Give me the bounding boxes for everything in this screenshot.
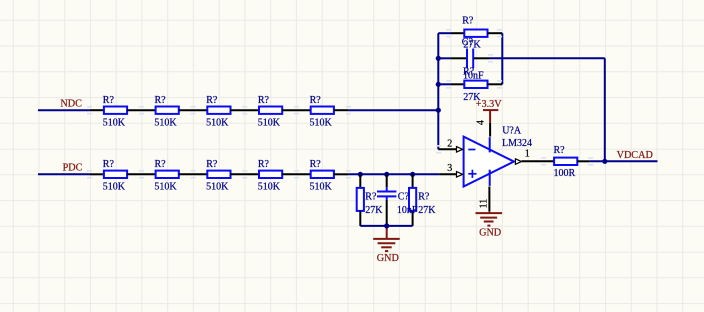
svg-text:100R: 100R <box>554 168 576 179</box>
svg-text:R?: R? <box>155 159 167 170</box>
svg-text:510K: 510K <box>154 118 177 129</box>
svg-text:R?: R? <box>155 95 167 106</box>
svg-text:R?: R? <box>310 159 322 170</box>
svg-text:R?: R? <box>206 159 218 170</box>
svg-text:R?: R? <box>258 95 270 106</box>
svg-text:4: 4 <box>475 120 486 125</box>
svg-text:R?: R? <box>206 95 218 106</box>
svg-text:NDC: NDC <box>60 99 82 110</box>
svg-text:R?: R? <box>103 95 115 106</box>
svg-text:R?: R? <box>462 16 474 27</box>
svg-text:1: 1 <box>525 148 530 159</box>
svg-text:27K: 27K <box>365 205 383 216</box>
svg-text:GND: GND <box>377 253 399 264</box>
svg-text:510K: 510K <box>206 118 229 129</box>
svg-text:10nF: 10nF <box>463 71 484 82</box>
svg-text:R?: R? <box>418 191 430 202</box>
svg-text:U?A: U?A <box>502 125 522 136</box>
svg-text:VDCAD: VDCAD <box>617 150 653 161</box>
svg-text:510K: 510K <box>258 118 281 129</box>
svg-text:R?: R? <box>103 159 115 170</box>
svg-text:27K: 27K <box>463 40 481 51</box>
svg-text:2: 2 <box>447 139 452 150</box>
svg-text:510K: 510K <box>310 182 333 193</box>
svg-text:11: 11 <box>479 199 490 209</box>
svg-text:R?: R? <box>365 191 377 202</box>
svg-text:R?: R? <box>258 159 270 170</box>
svg-text:510K: 510K <box>103 182 126 193</box>
svg-text:510K: 510K <box>258 182 281 193</box>
svg-text:R?: R? <box>554 145 566 156</box>
svg-text:3: 3 <box>447 163 452 174</box>
svg-text:510K: 510K <box>206 182 229 193</box>
svg-text:510K: 510K <box>103 118 126 129</box>
svg-text:510K: 510K <box>310 118 333 129</box>
svg-text:PDC: PDC <box>63 163 83 174</box>
svg-text:R?: R? <box>310 95 322 106</box>
svg-text:C?: C? <box>398 191 410 202</box>
svg-text:510K: 510K <box>154 182 177 193</box>
svg-text:27K: 27K <box>418 205 436 216</box>
svg-text:+3.3V: +3.3V <box>476 99 502 110</box>
svg-text:10nF: 10nF <box>397 205 418 216</box>
svg-text:GND: GND <box>479 227 501 238</box>
svg-text:LM324: LM324 <box>502 138 532 149</box>
